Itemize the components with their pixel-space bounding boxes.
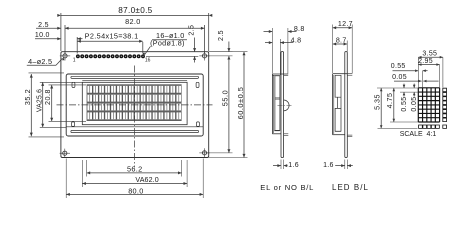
- EL glass stack: [275, 76, 280, 131]
- detail cursor row squares: [419, 125, 440, 128]
- svg-text:0.05: 0.05: [411, 96, 418, 111]
- dim 82.0: [65, 27, 205, 29]
- mounting holes with center marks: [63, 54, 67, 58]
- svg-text:LED B/L: LED B/L: [332, 183, 369, 192]
- bezel bottom slot bar: [71, 130, 199, 132]
- svg-text:82.0: 82.0: [125, 17, 141, 26]
- dim 87.0±0.5: [61, 14, 209, 16]
- leader to pin16: [145, 46, 151, 54]
- svg-text:4.8: 4.8: [291, 37, 302, 45]
- LED glass stack (stepped): [335, 75, 341, 131]
- svg-text:1: 1: [73, 58, 76, 64]
- bezel tab holes: [72, 82, 75, 87]
- bezel outline: [66, 74, 203, 136]
- pin row 16 circles: [76, 54, 80, 58]
- detail dot matrix grid 5x8: [418, 88, 439, 122]
- PCB outline front view: [61, 52, 209, 158]
- LED side view PCB: [345, 52, 348, 158]
- svg-text:56.2: 56.2: [127, 164, 143, 173]
- svg-text:35.2: 35.2: [23, 89, 32, 105]
- EL bezel front: [271, 74, 273, 134]
- svg-text:2.5: 2.5: [218, 30, 225, 41]
- detail next-char column squares: [443, 88, 447, 128]
- svg-text:SCALE 4:1: SCALE 4:1: [400, 131, 437, 138]
- svg-text:55.0: 55.0: [221, 90, 230, 107]
- svg-text:VA62.0: VA62.0: [135, 176, 158, 184]
- svg-text:3.55: 3.55: [422, 50, 437, 57]
- svg-text:10.0: 10.0: [35, 32, 50, 39]
- svg-text:80.0: 80.0: [128, 186, 143, 195]
- svg-text:12.7: 12.7: [338, 20, 353, 28]
- EL side view PCB: [281, 52, 284, 158]
- character grid 16x4: [87, 85, 182, 120]
- EL bump arc: [284, 100, 289, 111]
- svg-text:87.0±0.5: 87.0±0.5: [118, 6, 152, 15]
- svg-text:0.05: 0.05: [392, 74, 407, 81]
- EL bezel bottom + tab: [272, 133, 281, 135]
- svg-text:4–ø2.5: 4–ø2.5: [28, 57, 52, 66]
- svg-text:(Podø1.8): (Podø1.8): [150, 39, 185, 48]
- svg-text:P2.54x15=38.1: P2.54x15=38.1: [85, 31, 139, 40]
- LED bezel bottom + tab: [333, 134, 345, 136]
- svg-text:5.35: 5.35: [374, 94, 382, 110]
- svg-text:1.6: 1.6: [323, 162, 334, 169]
- svg-text:8.8: 8.8: [294, 25, 305, 33]
- LED bezel front: [332, 74, 334, 135]
- bezel top slot bar: [71, 76, 199, 78]
- svg-text:4.75: 4.75: [386, 93, 394, 109]
- EL centerline: [278, 105, 293, 107]
- svg-text:EL or NO B/L: EL or NO B/L: [260, 183, 314, 192]
- bezel inner lines: [82, 80, 187, 82]
- LED bezel top edge + tab: [333, 73, 348, 75]
- svg-text:1.6: 1.6: [288, 162, 299, 169]
- svg-text:16: 16: [145, 58, 151, 64]
- svg-text:0.55: 0.55: [401, 96, 408, 111]
- svg-text:2.5: 2.5: [188, 25, 195, 36]
- svg-text:0.55: 0.55: [391, 63, 406, 70]
- display window (VA): [82, 82, 187, 124]
- centerlines front view: [134, 66, 136, 168]
- svg-text:60.0±0.5: 60.0±0.5: [236, 87, 245, 120]
- svg-text:20.8: 20.8: [43, 89, 52, 105]
- EL bezel top edge + tab: [272, 73, 288, 75]
